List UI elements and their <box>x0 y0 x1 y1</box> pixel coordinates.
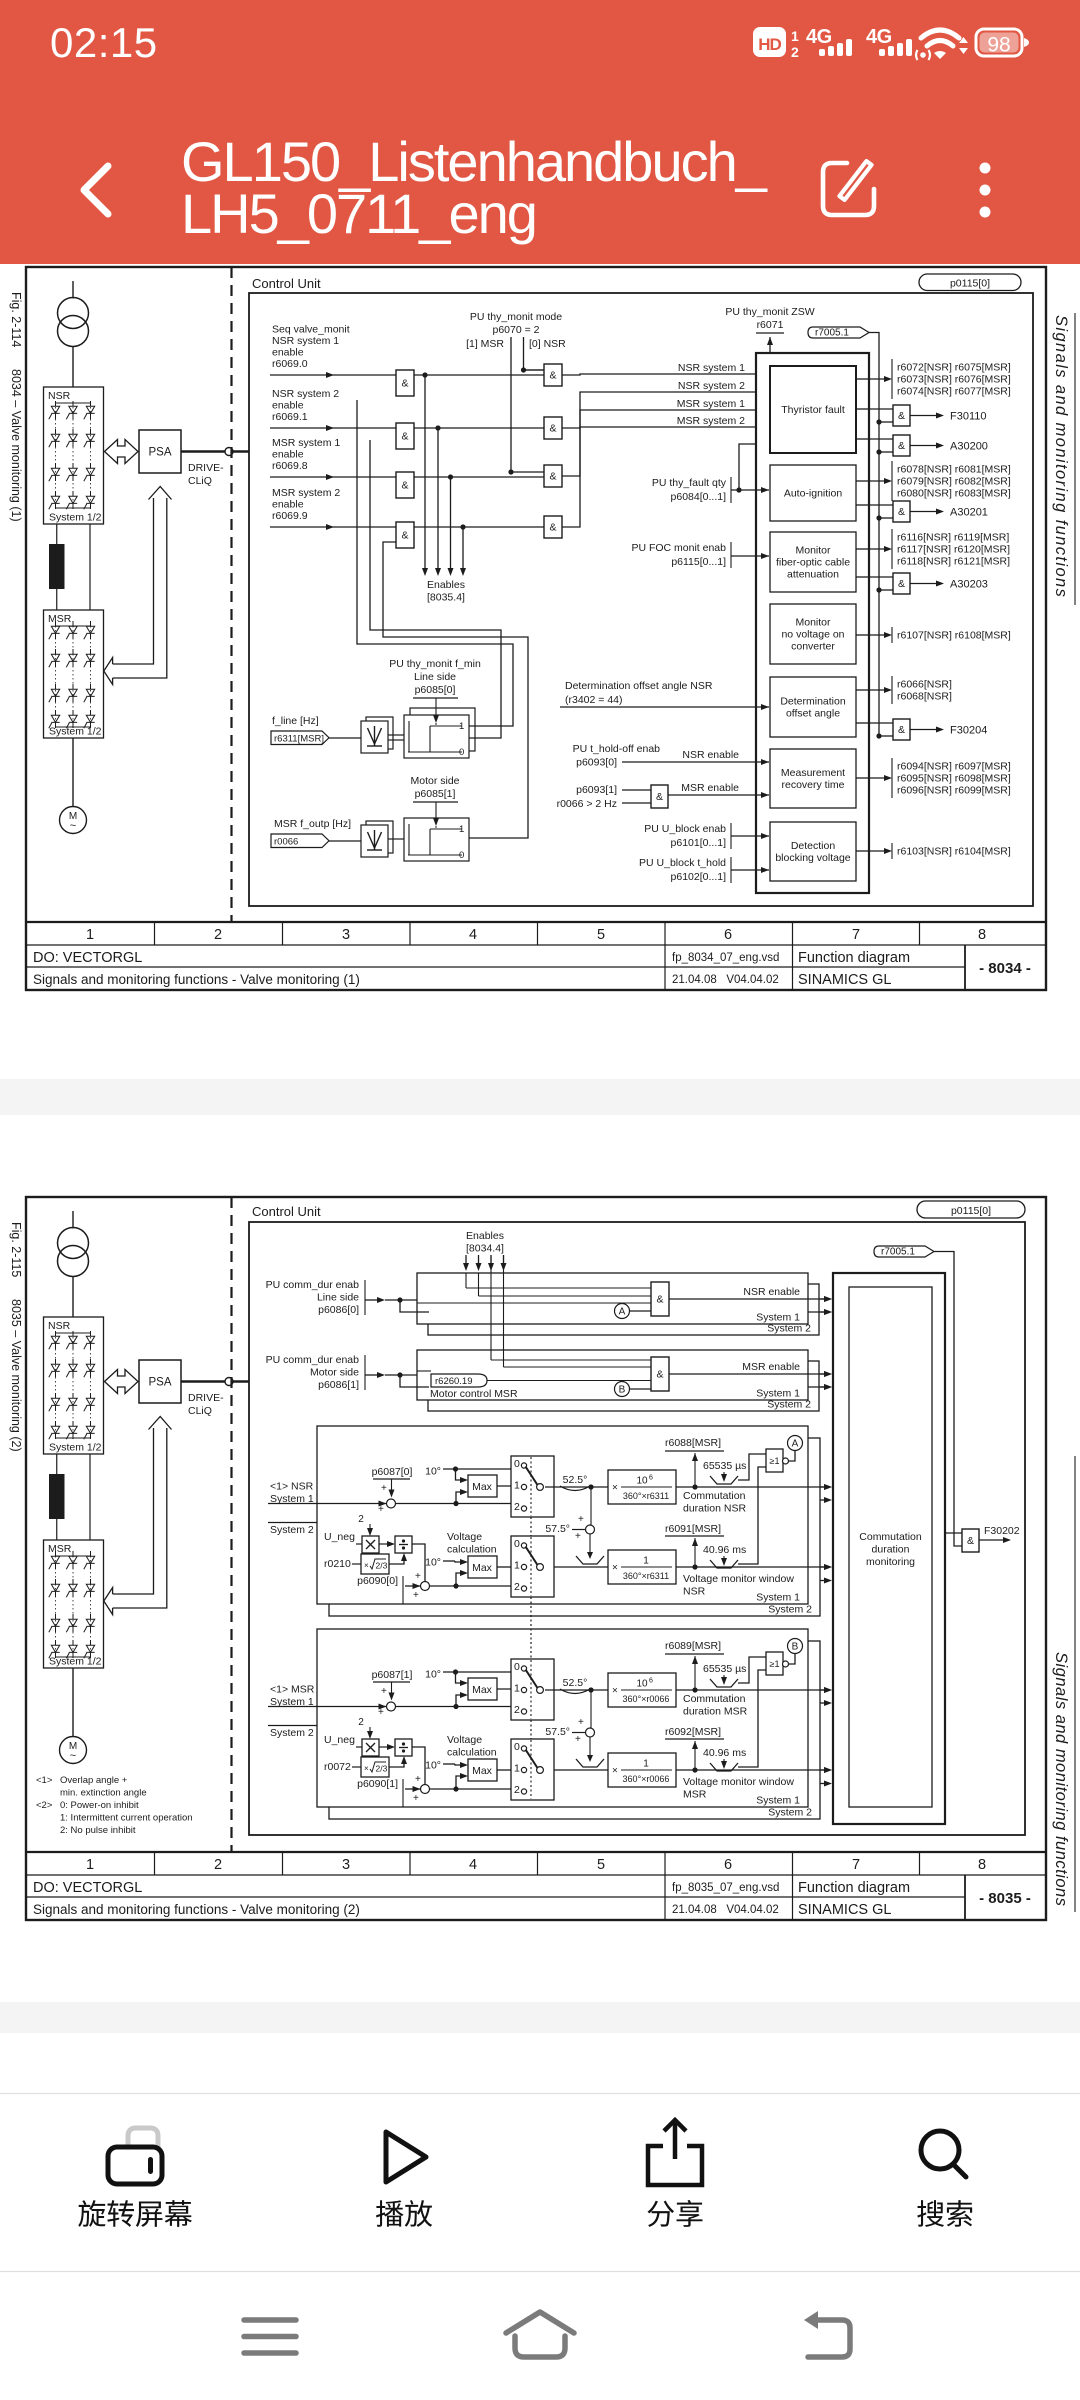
svg-text:7: 7 <box>852 1857 860 1873</box>
svg-text:DO: VECTORGL: DO: VECTORGL <box>33 950 142 966</box>
svg-text:p6085[1]: p6085[1] <box>415 788 456 800</box>
function box Thyristor fault <box>770 366 856 453</box>
svg-text:4G: 4G <box>866 26 892 48</box>
svg-text:0: Power-on inhibit: 0: Power-on inhibit <box>60 1800 139 1811</box>
switch output wire <box>545 1486 608 1488</box>
stacked system boxes <box>428 1361 819 1411</box>
svg-text:360°×r6311: 360°×r6311 <box>623 1491 669 1501</box>
svg-text:&: & <box>656 791 663 803</box>
svg-text:PU comm_dur enab: PU comm_dur enab <box>266 1279 360 1291</box>
DRIVE-CLiQ wire <box>181 1380 225 1383</box>
AND gate B4 <box>544 516 562 538</box>
svg-text:PU thy_monit f_min: PU thy_monit f_min <box>389 658 481 670</box>
svg-text:8: 8 <box>978 927 986 943</box>
svg-text:enable: enable <box>272 449 304 461</box>
wire main to max <box>396 1706 512 1708</box>
svg-text:2: 2 <box>358 1717 364 1728</box>
svg-text:2: 2 <box>514 1704 520 1716</box>
svg-text:duration: duration <box>872 1544 910 1556</box>
svg-text:p6090[0]: p6090[0] <box>357 1575 398 1587</box>
stacked system boxes <box>329 1641 820 1819</box>
page separator band 1 <box>0 1079 1080 1115</box>
svg-text:- 8035 -: - 8035 - <box>979 1890 1031 1907</box>
toolbar label 搜索 <box>917 2200 944 2227</box>
svg-text:Auto-ignition: Auto-ignition <box>784 488 843 500</box>
svg-text:0: 0 <box>514 1458 520 1470</box>
svg-text:r6069.8: r6069.8 <box>272 460 308 472</box>
svg-text:2: 2 <box>791 44 799 60</box>
svg-text:MSR: MSR <box>48 613 72 625</box>
svg-text:r6094[NSR] r6097[MSR]: r6094[NSR] r6097[MSR] <box>897 761 1011 773</box>
svg-text:&: & <box>898 578 905 590</box>
PSA box <box>139 430 181 473</box>
monitor input arrows redraw <box>820 1298 828 1300</box>
svg-text:Commutation: Commutation <box>859 1531 922 1543</box>
AND gate NSR enable <box>651 1282 669 1316</box>
svg-text:p6087[0]: p6087[0] <box>372 1466 413 1478</box>
dotted link <box>530 1720 532 1739</box>
svg-text:B: B <box>619 1385 626 1396</box>
MSR thyristor bridge <box>44 1540 104 1668</box>
svg-text:Max: Max <box>472 1562 493 1574</box>
svg-text:Voltage: Voltage <box>447 1734 482 1746</box>
r7005.1 flag <box>808 327 869 338</box>
svg-text:r6072[NSR] r6075[MSR]: r6072[NSR] r6075[MSR] <box>897 362 1011 374</box>
svg-text:+: + <box>578 1717 584 1728</box>
svg-text:+: + <box>413 1590 419 1601</box>
control unit frame <box>249 293 1033 906</box>
svg-text:System 1: System 1 <box>756 1312 800 1324</box>
MSR thyristor bridge <box>44 610 104 738</box>
r7005.1 distribution wire <box>869 333 879 737</box>
svg-text:min. extinction angle: min. extinction angle <box>60 1788 147 1799</box>
title block table 8035 <box>26 1874 1046 1876</box>
svg-text:enable: enable <box>272 347 304 359</box>
mode select wires <box>510 337 512 472</box>
svg-text:r6074[NSR] r6077[MSR]: r6074[NSR] r6077[MSR] <box>897 386 1011 398</box>
svg-text:r6107[NSR] r6108[MSR]: r6107[NSR] r6108[MSR] <box>897 630 1011 642</box>
svg-text:~: ~ <box>70 1750 76 1762</box>
svg-text:duration MSR: duration MSR <box>683 1706 748 1718</box>
toolbar label 播放 <box>376 2200 403 2227</box>
commutation duration out <box>676 1689 828 1691</box>
svg-text:A: A <box>792 1439 799 1450</box>
svg-text:5: 5 <box>597 1857 605 1873</box>
wire NSR to smoothing reactor <box>56 524 58 544</box>
svg-text:10°: 10° <box>425 1669 441 1681</box>
svg-text:A30201: A30201 <box>950 507 988 519</box>
svg-text:F30110: F30110 <box>950 411 987 423</box>
search icon <box>921 2131 959 2169</box>
svg-text:+: + <box>381 1686 387 1697</box>
svg-text:System 2: System 2 <box>768 1604 812 1616</box>
AND gate B3 <box>544 465 562 487</box>
svg-text:5: 5 <box>597 927 605 943</box>
svg-text:4G: 4G <box>806 26 832 48</box>
svg-text:monitoring: monitoring <box>866 1556 915 1568</box>
svg-text:Max: Max <box>472 1684 493 1696</box>
svg-text:40.96 ms: 40.96 ms <box>703 1544 746 1556</box>
svg-text:fiber-optic cable: fiber-optic cable <box>776 557 850 569</box>
svg-text:1: 1 <box>643 1759 649 1770</box>
fraction box r0066 1e6 <box>608 1673 676 1707</box>
svg-text:×: × <box>612 1766 618 1777</box>
Max box 1 <box>468 1678 497 1700</box>
svg-text:360°×r0066: 360°×r0066 <box>623 1774 670 1784</box>
block arrow NSR-PSA <box>105 440 139 464</box>
battery icon <box>976 29 1022 56</box>
hysteresis monitor line side <box>410 708 475 751</box>
svg-text:0: 0 <box>459 747 464 758</box>
edit icon <box>823 163 874 215</box>
svg-text:Monitor: Monitor <box>795 545 831 557</box>
svg-text:57.5°: 57.5° <box>545 1726 570 1738</box>
svg-text:r7005.1: r7005.1 <box>815 328 849 339</box>
svg-text:Measurement: Measurement <box>781 767 845 779</box>
svg-text:8035 – Valve monitoring (2): 8035 – Valve monitoring (2) <box>9 1299 23 1452</box>
svg-text:r6091[MSR]: r6091[MSR] <box>665 1523 721 1535</box>
fraction box r0066 1 <box>608 1753 676 1787</box>
svg-text:4: 4 <box>469 1857 477 1873</box>
svg-text:&: & <box>401 530 408 542</box>
svg-text:LH5_0711_eng: LH5_0711_eng <box>181 182 536 245</box>
back chevron <box>84 166 108 214</box>
svg-text:&: & <box>401 480 408 492</box>
svg-text:no voltage on: no voltage on <box>781 629 844 641</box>
svg-text:r7005.1: r7005.1 <box>881 1247 915 1258</box>
svg-text:Seq valve_monit: Seq valve_monit <box>272 324 350 336</box>
summing point 1 <box>387 1499 396 1508</box>
svg-text:1: 1 <box>459 721 464 732</box>
frequency limiter 2 <box>366 821 393 853</box>
svg-text:&: & <box>549 522 556 534</box>
svg-text:Voltage: Voltage <box>447 1531 482 1543</box>
svg-text:NSR system 2: NSR system 2 <box>272 388 339 400</box>
svg-text:[1] MSR: [1] MSR <box>466 338 504 350</box>
svg-text:10°: 10° <box>425 1557 441 1569</box>
svg-text:System 1/2: System 1/2 <box>49 512 102 524</box>
svg-text:r6079[NSR] r6082[MSR]: r6079[NSR] r6082[MSR] <box>897 476 1011 488</box>
svg-text:+: + <box>575 1734 581 1745</box>
title block table 8034 <box>26 944 1046 946</box>
svg-text:360°×r6311: 360°×r6311 <box>623 1571 669 1581</box>
svg-text:1: 1 <box>514 1480 520 1492</box>
svg-text:PU comm_dur enab: PU comm_dur enab <box>266 1354 360 1366</box>
svg-text:A: A <box>619 1307 626 1318</box>
Max box 2 <box>468 1556 497 1578</box>
svg-text:PSA: PSA <box>148 1377 171 1389</box>
svg-text:Signals and monitoring functio: Signals and monitoring functions - Valve… <box>33 1902 360 1917</box>
svg-text:0: 0 <box>514 1741 520 1753</box>
svg-text:fp_8034_07_eng.vsd: fp_8034_07_eng.vsd <box>672 952 779 964</box>
svg-text:F30202: F30202 <box>984 1525 1020 1537</box>
svg-text:57.5°: 57.5° <box>545 1523 570 1535</box>
svg-text:10: 10 <box>636 1476 648 1487</box>
svg-text:PSA: PSA <box>148 447 171 459</box>
smoothing reactor (DC link) <box>49 544 65 589</box>
svg-text:MSR: MSR <box>683 1789 707 1801</box>
dashed cabinet separator p2 <box>230 1197 232 1852</box>
function box Detection blocking voltage <box>770 822 856 881</box>
switch output wire <box>545 1689 608 1691</box>
svg-text:0: 0 <box>514 1661 520 1673</box>
svg-text:SINAMICS GL: SINAMICS GL <box>798 1902 891 1918</box>
wire 5th input <box>739 444 769 490</box>
svg-text:2: 2 <box>514 1581 520 1593</box>
dotted link between groups <box>530 1597 532 1659</box>
svg-text:&: & <box>401 378 408 390</box>
wire window to or-gate <box>738 1454 766 1480</box>
svg-text:Control Unit: Control Unit <box>252 1204 321 1219</box>
svg-text:MSR enable: MSR enable <box>681 782 739 794</box>
function box Determination offset angle <box>770 677 856 737</box>
svg-text:duration NSR: duration NSR <box>683 1503 746 1515</box>
svg-text:p6087[1]: p6087[1] <box>372 1669 413 1681</box>
svg-text:HD: HD <box>758 35 781 54</box>
transformer T1 <box>58 298 89 329</box>
svg-text:r0066 > 2 Hz: r0066 > 2 Hz <box>557 798 617 810</box>
no-voltage output <box>856 634 869 636</box>
svg-text:p6093[0]: p6093[0] <box>576 757 617 769</box>
svg-text:1: 1 <box>791 28 799 44</box>
svg-text:&: & <box>898 724 905 736</box>
svg-text:<2>: <2> <box>36 1800 53 1811</box>
function box Monitor fiber-optic <box>770 532 856 592</box>
svg-text:recovery time: recovery time <box>781 779 844 791</box>
svg-text:PU thy_fault qty: PU thy_fault qty <box>652 477 727 489</box>
svg-text:~: ~ <box>70 820 76 832</box>
svg-text:8: 8 <box>978 1857 986 1873</box>
svg-text:calculation: calculation <box>447 1747 497 1759</box>
svg-text:&: & <box>656 1369 663 1381</box>
svg-text:×: × <box>612 1483 618 1494</box>
AND gate A2 <box>396 423 414 449</box>
Max box 2 <box>468 1759 497 1781</box>
dotted link <box>530 1517 532 1536</box>
smoothing reactor (DC link) <box>49 1474 65 1519</box>
page separator band 2 <box>0 2002 1080 2033</box>
function box Measurement recovery time <box>770 749 856 808</box>
svg-text:Monitor: Monitor <box>795 617 831 629</box>
svg-text:+: + <box>578 1514 584 1525</box>
svg-text:8034 – Valve monitoring (1): 8034 – Valve monitoring (1) <box>9 369 23 522</box>
svg-text:r6073[NSR] r6076[MSR]: r6073[NSR] r6076[MSR] <box>897 374 1011 386</box>
svg-text:NSR system 1: NSR system 1 <box>272 335 339 347</box>
wire transformer to NSR bridge <box>72 1277 74 1318</box>
r7005.1 wire p2 <box>934 1252 962 1547</box>
svg-text:21.04.08 V04.04.02: 21.04.08 V04.04.02 <box>672 1904 779 1916</box>
svg-text:10°: 10° <box>425 1466 441 1478</box>
svg-text:4: 4 <box>469 927 477 943</box>
svg-text:PU U_block t_hold: PU U_block t_hold <box>639 857 726 869</box>
p0115[0] pill <box>919 274 1021 291</box>
svg-text:360°×r0066: 360°×r0066 <box>623 1694 670 1704</box>
svg-text:p6101[0...1]: p6101[0...1] <box>671 837 727 849</box>
svg-text:Voltage monitor window: Voltage monitor window <box>683 1776 794 1788</box>
svg-text:6: 6 <box>724 927 732 943</box>
wire sum2 to max2 <box>430 1788 512 1790</box>
svg-text:Signals and monitoring functio: Signals and monitoring functions - Valve… <box>33 972 360 987</box>
svg-text:MSR: MSR <box>48 1543 72 1555</box>
AND gate B2 <box>544 417 562 439</box>
svg-text:CLiQ: CLiQ <box>188 1405 212 1417</box>
HD icon <box>753 27 786 57</box>
play icon <box>386 2132 426 2182</box>
system1 wire MSR <box>808 1386 828 1388</box>
selector switch lower <box>511 1739 554 1800</box>
svg-text:+: + <box>378 1504 384 1515</box>
svg-text:DO: VECTORGL: DO: VECTORGL <box>33 1880 142 1896</box>
svg-text:p6086[1]: p6086[1] <box>318 1379 359 1391</box>
svg-text:+: + <box>415 1571 421 1582</box>
wire window2 to or-gate <box>738 1670 766 1767</box>
PSA box <box>139 1360 181 1403</box>
wire main to max <box>396 1503 512 1505</box>
letter circle <box>789 1451 796 1462</box>
svg-text:+: + <box>415 1774 421 1785</box>
AND gate F30202 <box>945 1532 962 1534</box>
frequency limiter 1 <box>366 717 393 749</box>
wire sum2 to max2 <box>430 1585 512 1587</box>
app header background <box>0 0 1080 264</box>
function box Monitor no voltage <box>770 604 856 664</box>
wire to thyristor-fault input MSR system 2 <box>562 427 769 527</box>
selector switch upper <box>511 1659 554 1720</box>
toolbar borders <box>0 2093 1080 2272</box>
voltage path wire <box>545 1769 608 1771</box>
svg-text:r6311[MSR]: r6311[MSR] <box>274 733 324 744</box>
svg-text:10°: 10° <box>425 1760 441 1772</box>
svg-text:System 1: System 1 <box>756 1592 800 1604</box>
wire MSR to motor <box>72 738 74 807</box>
or gate >=1 <box>766 1449 783 1472</box>
wire to thyristor-fault input NSR system 2 <box>562 392 769 428</box>
overflow menu dots <box>980 163 991 174</box>
thyristor fault outputs <box>856 378 869 380</box>
wire window to or-gate <box>738 1657 766 1683</box>
AND gate A3 <box>396 472 414 498</box>
svg-text:0: 0 <box>459 850 464 861</box>
svg-text:1: 1 <box>86 1857 94 1873</box>
svg-text:r6068[NSR]: r6068[NSR] <box>897 691 952 703</box>
svg-text:enable: enable <box>272 499 304 511</box>
svg-text:r0066: r0066 <box>274 836 298 847</box>
svg-text:SINAMICS GL: SINAMICS GL <box>798 972 891 988</box>
svg-text:Thyristor fault: Thyristor fault <box>781 404 845 416</box>
svg-text:Signals and monitoring functio: Signals and monitoring functions <box>1052 315 1070 598</box>
svg-text:40.96 ms: 40.96 ms <box>703 1747 746 1759</box>
fraction box r6311 1 <box>608 1550 676 1584</box>
gate B1 second input wire <box>524 369 545 371</box>
svg-text:PU thy_monit mode: PU thy_monit mode <box>470 311 562 323</box>
svg-text:Control Unit: Control Unit <box>252 276 321 291</box>
svg-text:System 1/2: System 1/2 <box>49 726 102 738</box>
svg-text:52.5°: 52.5° <box>563 1677 588 1689</box>
motor M <box>60 807 87 834</box>
detection output <box>856 850 869 852</box>
wire to thyristor-fault input NSR system 1 <box>562 374 769 375</box>
DRIVE-CLiQ wire <box>181 450 225 453</box>
svg-text:Line side: Line side <box>414 671 456 683</box>
svg-text:&: & <box>656 1294 663 1306</box>
svg-text:3: 3 <box>342 927 350 943</box>
wire MSR to motor <box>72 1668 74 1737</box>
svg-text:NSR: NSR <box>48 390 71 402</box>
wire to thyristor-fault input MSR system 1 <box>562 410 769 476</box>
svg-text:offset angle: offset angle <box>786 708 840 720</box>
svg-text:A30200: A30200 <box>950 441 988 453</box>
svg-text:Voltage monitor window: Voltage monitor window <box>683 1573 794 1585</box>
svg-text:Commutation: Commutation <box>683 1490 746 1502</box>
svg-text:NSR enable: NSR enable <box>682 749 739 761</box>
wire transformer to NSR bridge <box>72 347 74 388</box>
svg-text:&: & <box>898 440 905 452</box>
wire supply line <box>72 1211 74 1229</box>
svg-text:U_neg: U_neg <box>324 1734 355 1746</box>
svg-text:+: + <box>381 1483 387 1494</box>
svg-text:U_neg: U_neg <box>324 1531 355 1543</box>
commutation monitoring outer box <box>833 1273 945 1824</box>
AND gate A4 <box>396 522 414 548</box>
svg-text:1: Intermittent current operat: 1: Intermittent current operation <box>60 1813 193 1824</box>
enables drop wires <box>414 374 544 376</box>
svg-text:65535 µs: 65535 µs <box>703 1663 746 1675</box>
svg-text:NSR: NSR <box>48 1320 71 1332</box>
svg-text:NSR enable: NSR enable <box>743 1286 800 1298</box>
AND gate A1 <box>396 370 414 396</box>
svg-text:Fig. 2-114: Fig. 2-114 <box>9 292 23 347</box>
svg-text:7: 7 <box>852 927 860 943</box>
svg-text:[8034.4]: [8034.4] <box>466 1243 504 1255</box>
voltage path wire <box>545 1566 608 1568</box>
svg-text:Motor side: Motor side <box>310 1367 359 1379</box>
svg-text:p6085[0]: p6085[0] <box>415 684 456 696</box>
svg-text:&: & <box>401 431 408 443</box>
svg-text:p6090[1]: p6090[1] <box>357 1778 398 1790</box>
stacked system boxes <box>428 1284 819 1335</box>
dashed cabinet separator <box>230 267 232 922</box>
motor M <box>60 1737 87 1764</box>
svg-text:1: 1 <box>514 1763 520 1775</box>
svg-text:×: × <box>364 1561 369 1570</box>
Max box 1 <box>468 1475 497 1497</box>
svg-text:System 2: System 2 <box>768 1807 812 1819</box>
svg-text:Determination: Determination <box>780 696 846 708</box>
measurement outputs <box>856 777 869 779</box>
svg-text:p6070 = 2: p6070 = 2 <box>492 324 539 336</box>
svg-text:&: & <box>549 471 556 483</box>
svg-text:MSR system 2: MSR system 2 <box>272 487 340 499</box>
svg-text:r6069.0: r6069.0 <box>272 358 308 370</box>
auto-ignition outputs <box>856 480 869 482</box>
svg-text:0: 0 <box>514 1538 520 1550</box>
svg-text:<1> NSR: <1> NSR <box>270 1481 314 1493</box>
svg-text:System 1: System 1 <box>756 1795 800 1807</box>
svg-text:10: 10 <box>636 1679 648 1690</box>
svg-text:DRIVE-: DRIVE- <box>188 1392 224 1404</box>
svg-text:calculation: calculation <box>447 1544 497 1556</box>
p0115[0] pill p2 <box>917 1201 1025 1218</box>
svg-text:p6086[0]: p6086[0] <box>318 1304 359 1316</box>
A circle link <box>615 1304 630 1319</box>
svg-text:2: 2 <box>214 1857 222 1873</box>
svg-text:2: 2 <box>214 927 222 943</box>
svg-text:p0115[0]: p0115[0] <box>950 278 990 290</box>
svg-text:Line side: Line side <box>317 1292 359 1304</box>
svg-text:r0210: r0210 <box>324 1558 351 1570</box>
svg-text:r6069.1: r6069.1 <box>272 411 308 423</box>
svg-text:blocking voltage: blocking voltage <box>775 852 850 864</box>
